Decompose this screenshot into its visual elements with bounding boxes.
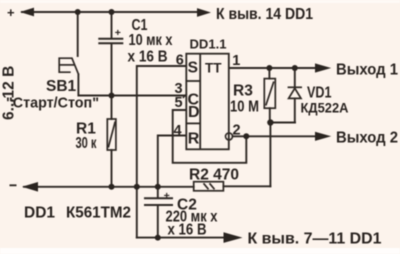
svg-text:30 к: 30 к: [76, 135, 97, 152]
arrow to pins 7-11 DD1: [224, 232, 243, 243]
capacitor C2: [144, 198, 173, 205]
svg-text:S: S: [188, 59, 198, 76]
svg-text:4: 4: [174, 123, 182, 139]
switch SB1: [59, 58, 78, 75]
wire VD1 bottom lead: [294, 98, 296, 122]
svg-text:SB1: SB1: [46, 78, 77, 95]
svg-text:5: 5: [175, 95, 183, 111]
wire pin 5 D-input feedback to pin 2: [173, 110, 247, 163]
wire pin 1 output: [229, 67, 317, 69]
diode VD1: [288, 87, 302, 98]
svg-text:10 мк х: 10 мк х: [129, 32, 173, 49]
svg-text:"Старт/Стоп": "Старт/Стоп": [6, 95, 99, 112]
node SB1/top rail: [75, 9, 81, 15]
node C2/minus rail: [155, 184, 161, 190]
wire minus rail: [24, 186, 194, 188]
svg-text:1: 1: [232, 53, 240, 69]
wire VD1 top lead: [294, 68, 296, 87]
svg-text:К выв. 7—11 DD1: К выв. 7—11 DD1: [248, 231, 382, 248]
svg-text:R3: R3: [233, 83, 253, 100]
clock input tick: [183, 94, 187, 98]
svg-text:Выход 1: Выход 1: [336, 62, 398, 79]
svg-text:D: D: [188, 104, 200, 121]
svg-text:R2 470: R2 470: [189, 167, 239, 184]
node C1/top rail: [109, 9, 115, 15]
svg-text:+: +: [7, 5, 15, 20]
arrow Выход 2: [315, 132, 331, 141]
resistor R1: [107, 119, 116, 150]
svg-text:R: R: [188, 131, 200, 148]
svg-text:6...12 В: 6...12 В: [1, 66, 18, 120]
svg-text:+: +: [115, 27, 121, 39]
wire pin 2 output: [233, 135, 317, 137]
wire R2 left lead (minus rail): [223, 185, 270, 187]
capacitor C1: [98, 39, 123, 44]
wire C2 bottom lead: [157, 205, 159, 237]
node S-wire/minus rail: [134, 184, 140, 190]
arrow left plus terminal: [20, 8, 34, 17]
wire SB1 top stub: [77, 12, 79, 56]
resistor R2: [194, 182, 224, 191]
svg-text:КД522А: КД522А: [301, 100, 349, 116]
node VD1 top: [292, 65, 298, 71]
minus sign: [10, 184, 17, 186]
wire C1 bottom stub: [111, 44, 113, 96]
node C2/bottom rail: [155, 235, 161, 241]
node R3/VD1 bottom: [267, 119, 273, 125]
arrow left minus terminal: [22, 182, 38, 192]
node R1/minus rail: [109, 184, 115, 190]
wire minus rail to bottom rail: [136, 187, 138, 238]
wire pin 4 R-input down to C2: [158, 136, 186, 199]
wire pin 6 S-input to minus rail: [137, 66, 186, 187]
wire R3 bottom lead: [269, 108, 271, 122]
arrow Выход 1: [315, 63, 331, 72]
node C1/R1/SB1: [109, 93, 115, 99]
svg-text:2: 2: [233, 123, 241, 139]
svg-text:К выв. 14 DD1: К выв. 14 DD1: [216, 6, 313, 23]
wire top supply rail: [22, 11, 198, 13]
resistor R3: [264, 79, 275, 109]
svg-text:+: +: [164, 190, 170, 202]
node R3 top: [266, 65, 272, 71]
svg-text:DD1: DD1: [24, 205, 55, 222]
wire C1 top stub: [111, 12, 113, 38]
wire R3/VD1 bottom junction to R2: [270, 123, 295, 187]
svg-text:10 М: 10 М: [230, 99, 259, 116]
flip-flop DD1.1 box: [186, 54, 229, 150]
node pin2 feedback: [243, 133, 249, 139]
arrow to pin 14 DD1: [197, 8, 211, 17]
wire R3 top lead: [268, 68, 270, 79]
wire R1 bottom lead: [111, 150, 113, 187]
wire bottom rail: [137, 237, 223, 239]
wire R1 top lead: [111, 96, 113, 120]
wire SB1 bottom to C-input (pin 3 net): [78, 74, 185, 95]
svg-text:TT: TT: [205, 60, 222, 75]
svg-text:х 16 В: х 16 В: [168, 222, 207, 239]
svg-text:6: 6: [176, 53, 184, 69]
svg-text:х 16 В: х 16 В: [128, 49, 168, 66]
svg-text:DD1.1: DD1.1: [190, 37, 227, 51]
svg-text:К561ТМ2: К561ТМ2: [66, 205, 131, 222]
svg-text:Выход 2: Выход 2: [336, 130, 398, 147]
pin 2 inversion bubble: [226, 133, 233, 140]
